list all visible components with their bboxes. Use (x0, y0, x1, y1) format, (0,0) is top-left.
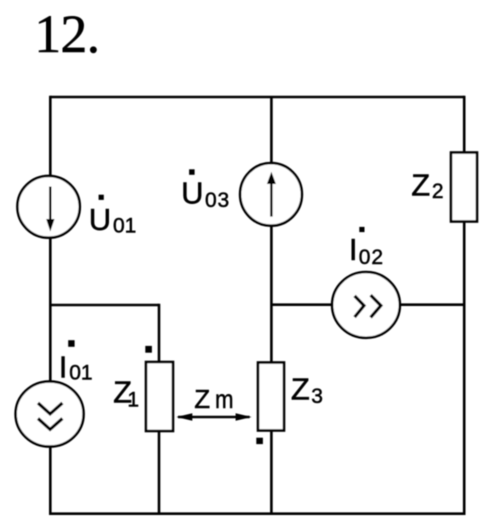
impedance Z3 (258, 363, 284, 431)
wire: middle rail (270, 97, 273, 514)
impedance Z2 (451, 153, 477, 222)
svg-text:Z: Z (291, 372, 310, 407)
svg-text:03: 03 (205, 189, 230, 212)
svg-text:Z: Z (194, 384, 210, 414)
wire: right rail (463, 96, 466, 514)
wire: left rail (49, 96, 52, 514)
wire: bottom rail (49, 512, 466, 515)
svg-text:02: 02 (359, 246, 384, 269)
impedance Z1 (146, 362, 173, 431)
current source I02 (332, 272, 400, 338)
voltage source U01 (17, 176, 79, 238)
mutual coupling arrow Zm (178, 416, 250, 419)
svg-text:12.: 12. (34, 4, 99, 64)
svg-text:m: m (215, 384, 234, 414)
wire: Z1 branch vertical (158, 304, 161, 514)
coupling dot near Z1 (145, 346, 152, 353)
wire: I02 branch horizontal (271, 303, 464, 306)
svg-text:2: 2 (432, 180, 444, 203)
voltage source U03 (240, 163, 302, 226)
svg-text:01: 01 (69, 361, 92, 384)
svg-text:U: U (181, 176, 203, 211)
svg-text:1: 1 (127, 389, 139, 412)
wire: left sub-branch horizontal (50, 304, 159, 307)
svg-text:3: 3 (311, 385, 323, 408)
current source I01 (16, 381, 84, 446)
wire: top rail (50, 96, 464, 99)
svg-text:I: I (349, 232, 358, 267)
svg-text:Z: Z (411, 167, 430, 202)
coupling dot near Z3 (256, 438, 263, 444)
svg-text:I: I (59, 349, 68, 384)
svg-text:U: U (89, 202, 111, 237)
svg-text:01: 01 (113, 215, 136, 238)
